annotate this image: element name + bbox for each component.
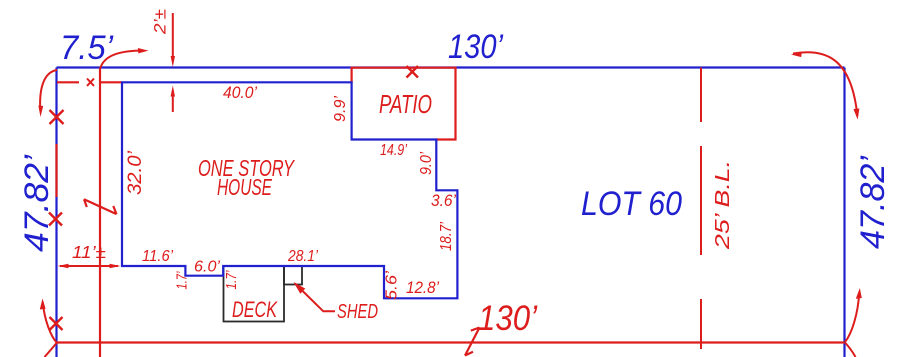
fence X mark on left lot line (middle): [49, 213, 62, 226]
red fence overlay segment on left lot line: [55, 144, 57, 197]
building line 25' B.L. (red, dashed segments): [700, 68, 702, 123]
arrowhead: BL up: [40, 299, 46, 310]
arrowhead: dim 11' left: [58, 264, 69, 268]
easement line 7.5' (red vertical): [99, 68, 101, 357]
dimension 2'± lower arrow: [172, 91, 174, 113]
svg-text:25’ B.L.: 25’ B.L.: [712, 160, 734, 250]
arrowhead: dim 2' down: [171, 56, 175, 67]
svg-text:LOT 60: LOT 60: [581, 185, 682, 223]
arrowhead: TL down: [38, 106, 43, 118]
svg-text:2’±: 2’±: [152, 9, 170, 35]
svg-text:130’: 130’: [448, 28, 503, 66]
svg-text:SHED: SHED: [337, 301, 378, 323]
arrowhead: TR left: [791, 52, 802, 58]
svg-text:11’±: 11’±: [72, 242, 106, 262]
svg-text:11.6’: 11.6’: [142, 248, 173, 265]
svg-text:PATIO: PATIO: [379, 89, 432, 119]
shed outline: [284, 266, 302, 285]
lot boundary right line 47.82': [843, 68, 845, 357]
dimension 11'± arrow line: [60, 265, 118, 267]
svg-text:9.9’: 9.9’: [332, 96, 349, 122]
fence line at top-left (red horizontal): [57, 81, 79, 83]
svg-text:130’: 130’: [478, 299, 538, 338]
house outline (one story house): [122, 82, 457, 298]
break arrow on easement line: [84, 199, 117, 214]
deck outline: [224, 266, 285, 322]
lot boundary bottom line 130' (red): [57, 341, 845, 343]
svg-text:9.0’: 9.0’: [418, 152, 435, 175]
curved arrow top-right (double headed): [793, 52, 857, 116]
arrowhead: BR up: [856, 288, 862, 299]
svg-text:3.6’: 3.6’: [431, 191, 456, 210]
arrowhead: dim 2' up: [171, 86, 175, 97]
curved arrow top-left (up-right along top line): [101, 51, 145, 68]
lot boundary left line 47.82': [55, 68, 57, 357]
arrowhead: shed leader: [294, 282, 306, 294]
fence x mark: [87, 79, 94, 86]
svg-text:32.0’: 32.0’: [125, 150, 146, 195]
svg-text:HOUSE: HOUSE: [217, 174, 272, 200]
svg-text:47.82’: 47.82’: [18, 155, 56, 252]
svg-text:14.9’: 14.9’: [380, 142, 407, 159]
curved arrow bottom-right: [845, 292, 859, 342]
svg-text:40.0’: 40.0’: [223, 83, 257, 102]
svg-text:1.7’: 1.7’: [223, 270, 240, 290]
svg-text:18.7’: 18.7’: [438, 222, 455, 251]
svg-text:1.7’: 1.7’: [174, 271, 191, 289]
fence X mark on top lot line at patio: [407, 66, 419, 78]
svg-text:6.0’: 6.0’: [194, 259, 220, 276]
svg-text:28.1’: 28.1’: [287, 248, 318, 265]
break arrow on bottom lot line: [465, 328, 480, 356]
svg-text:47.82’: 47.82’: [854, 156, 892, 249]
arrowhead: TR down: [853, 109, 859, 120]
fence X mark on left lot line (upper): [50, 110, 64, 124]
shed leader line: [295, 284, 335, 312]
svg-text:12.8’: 12.8’: [406, 278, 439, 297]
arrowhead: TL right: [138, 48, 149, 53]
svg-text:5.6’: 5.6’: [384, 270, 401, 300]
curved arrow bottom-left: [43, 302, 57, 343]
dimension 2'± upper arrow: [172, 13, 174, 60]
curved arrow top-left (down along left line): [40, 70, 57, 110]
lot boundary top line 130': [57, 66, 845, 68]
svg-text:DECK: DECK: [232, 297, 278, 322]
patio outline (red): [352, 68, 456, 140]
svg-text:7.5’: 7.5’: [60, 29, 113, 67]
arrowhead: dim 11' right: [110, 264, 121, 268]
fence X mark on left lot line (lower): [50, 317, 63, 330]
